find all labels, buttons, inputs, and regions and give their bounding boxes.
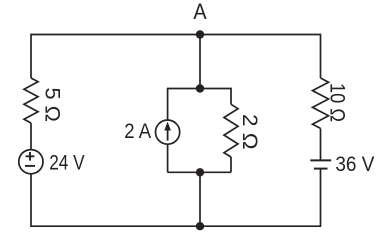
wire bottom rail [31,225,321,227]
wire sub-loop right leg lower [230,157,232,172]
wire middle upper from node A [199,35,201,89]
wire left side middle [30,123,32,150]
svg-text:24 V: 24 V [49,151,85,175]
svg-text:2 A: 2 A [124,119,151,143]
wire right side upper [320,34,322,78]
current source arrow shaft [167,128,169,141]
junction dot bottom rail [196,222,204,230]
svg-text:2 Ω: 2 Ω [238,114,262,150]
wire left side upper [30,34,32,78]
wire top rail [31,34,321,36]
wire right side lower [320,169,322,227]
wire sub-loop right leg upper [230,88,232,105]
wire sub-loop top rail [168,88,232,90]
svg-text:5 Ω: 5 Ω [40,88,64,122]
battery 36V short plate [314,168,328,170]
wire sub-loop left leg lower [167,144,169,172]
wire right side middle [320,128,322,160]
wire left side lower [30,174,32,227]
wire sub-loop left leg upper [167,88,169,121]
battery 36V long plate [310,159,331,161]
svg-text:36 V: 36 V [335,152,375,176]
resistor 2 ohm zigzag [224,104,238,157]
resistor 5 ohm zigzag [24,78,38,123]
junction dot middle bottom [196,168,204,176]
svg-text:10 Ω: 10 Ω [325,83,349,122]
plus sign inside source [26,152,35,161]
current source arrowhead [164,122,171,131]
node A junction dot [196,30,204,38]
resistor 10 ohm zigzag [313,78,329,128]
wire sub-loop bottom rail [168,171,232,173]
voltage source V1 24V circle [19,150,43,174]
junction dot middle top [196,84,204,92]
minus sign inside source [25,165,35,167]
svg-text:A: A [193,0,206,24]
current source I1 2A circle [156,120,180,144]
wire middle lower [199,172,201,226]
